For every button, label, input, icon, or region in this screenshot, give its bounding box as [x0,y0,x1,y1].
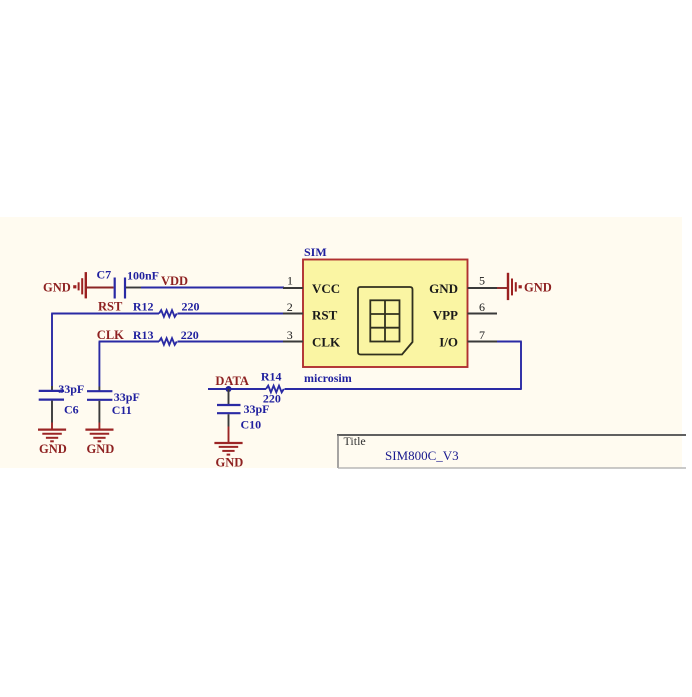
ground GND (C10) [214,427,243,470]
wire C7 to pin 1 (VDD net) [126,287,284,289]
wire CLK left segment [99,341,159,343]
svg-text:R12: R12 [133,300,154,314]
svg-text:RST: RST [98,300,123,314]
svg-text:CLK: CLK [97,328,124,342]
capacitor C10 33pF [217,389,270,432]
svg-text:33pF: 33pF [244,402,270,416]
svg-text:I/O: I/O [439,334,458,349]
resistor R14 220 [261,369,284,405]
svg-text:Title: Title [344,434,366,448]
pin 3 CLK [283,328,341,350]
pin 2 RST [283,300,338,323]
svg-text:VCC: VCC [312,281,340,296]
svg-text:microsim: microsim [304,371,352,385]
ground GND (C6) [38,423,67,457]
pin 7 I/O [439,328,497,350]
wire GND to C7 [86,287,114,289]
power port GND (right of pin 5) [497,273,552,300]
svg-text:100nF: 100nF [127,269,159,283]
pin 6 VPP [433,300,497,323]
svg-text:220: 220 [182,300,200,314]
svg-text:5: 5 [479,273,485,287]
resistor R12 220 [133,300,200,317]
junction dot (DATA node) [226,386,232,392]
svg-text:C11: C11 [112,403,132,417]
svg-text:33pF: 33pF [58,382,84,396]
svg-text:6: 6 [479,300,485,314]
svg-text:R14: R14 [261,369,282,383]
svg-text:SIM800C_V3: SIM800C_V3 [385,448,459,463]
svg-text:VDD: VDD [161,274,188,288]
svg-text:GND: GND [43,281,71,295]
svg-text:GND: GND [39,442,67,456]
svg-text:GND: GND [524,281,552,295]
svg-text:CLK: CLK [312,334,341,349]
pin 5 GND [429,273,497,296]
pin 1 VCC [283,273,340,296]
capacitor C6 33pF [39,382,85,422]
svg-text:3: 3 [287,328,293,342]
capacitor C11 33pF [87,387,140,423]
capacitor C7 100nF [97,268,160,299]
svg-text:SIM: SIM [304,245,327,259]
svg-text:VPP: VPP [433,307,458,322]
wire R13 to pin 3 [178,341,285,343]
svg-text:220: 220 [181,328,199,342]
svg-text:GND: GND [429,281,458,296]
svg-text:C7: C7 [97,268,112,282]
sim card icon [358,287,413,355]
resistor R13 220 [133,328,199,345]
title block [337,434,686,468]
svg-text:GND: GND [87,442,115,456]
wire RST left segment [51,313,159,315]
wire R12 to pin 2 [178,313,285,315]
svg-text:DATA: DATA [215,374,249,388]
wire I/O horizontal [496,341,522,343]
svg-text:R13: R13 [133,328,154,342]
power port GND (left of C7) [43,272,86,298]
ground GND (C11) [85,423,114,457]
svg-text:1: 1 [287,273,293,287]
svg-text:GND: GND [216,456,244,470]
wire I/O vertical [520,342,522,390]
wire DATA left segment [208,388,266,390]
wire RST vertical to C6 [51,314,53,387]
svg-text:C10: C10 [241,418,262,432]
svg-text:C6: C6 [64,403,79,417]
svg-text:RST: RST [312,307,338,322]
svg-text:2: 2 [287,300,293,314]
wire CLK vertical to C11 [98,342,100,387]
wire R14 to I/O corner [285,388,522,390]
connector SIM body [303,260,468,368]
svg-text:7: 7 [479,328,485,342]
